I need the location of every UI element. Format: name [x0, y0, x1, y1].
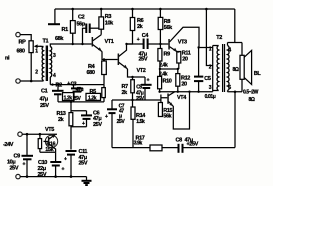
- wire bus upper (T1 bottom row): [50, 84, 104, 86]
- transistor VT4: [167, 94, 169, 104]
- capacitor C6: [71, 111, 87, 127]
- ground top-left: [54, 9, 56, 24]
- resistor R15: [158, 103, 162, 117]
- svg-text:R10: R10: [163, 78, 172, 84]
- transistor VT2: [118, 54, 120, 66]
- resistor R7: [131, 80, 135, 93]
- svg-text:68k: 68k: [55, 36, 64, 42]
- wire VT3 collector to T2 pin1: [199, 47, 213, 49]
- wire VT4 base from R15: [161, 95, 167, 103]
- svg-text:47μ: 47μ: [76, 87, 84, 93]
- wire VT4 emitter loop: [173, 92, 190, 129]
- wire output node vertical: [234, 92, 236, 148]
- svg-text:0.5~2W: 0.5~2W: [243, 90, 259, 96]
- resistor R10: [158, 76, 162, 88]
- svg-text:25V: 25V: [136, 96, 145, 102]
- svg-text:BL: BL: [254, 71, 262, 77]
- svg-text:C1: C1: [41, 89, 48, 95]
- ground bottom: [86, 177, 88, 181]
- wire VT2 emitter: [127, 69, 145, 77]
- resistor R17: [150, 145, 162, 151]
- wire mid divider: [160, 61, 179, 76]
- svg-text:1.2k: 1.2k: [88, 95, 97, 101]
- transistor VT1: [92, 37, 94, 47]
- wire input top: [20, 35, 31, 41]
- resistor R6: [130, 18, 134, 31]
- svg-text:C8: C8: [176, 137, 183, 143]
- svg-text:680: 680: [17, 48, 25, 54]
- svg-text:R14: R14: [136, 113, 146, 119]
- resistor R12: [176, 74, 180, 87]
- svg-text:R3: R3: [105, 14, 112, 20]
- svg-text:R2: R2: [56, 82, 63, 88]
- svg-text:VT3: VT3: [178, 40, 187, 46]
- wire speaker bottom to pin5: [228, 79, 243, 92]
- svg-text:47μ: 47μ: [40, 97, 48, 103]
- svg-text:2.4k: 2.4k: [159, 71, 168, 77]
- transistor VT3: [168, 39, 170, 50]
- svg-text:VT2: VT2: [137, 68, 146, 74]
- wire bottom rail: [16, 174, 20, 178]
- resistor R9: [158, 49, 162, 62]
- wire rail to T2 pin2: [206, 9, 212, 66]
- svg-text:25V: 25V: [40, 103, 49, 109]
- svg-text:R9: R9: [164, 52, 171, 58]
- resistor R16: [38, 139, 41, 149]
- wire -24V rail: [18, 132, 22, 136]
- resistor R5 body: [102, 88, 106, 98]
- svg-text:25V: 25V: [93, 122, 102, 128]
- wire RP bottom: [30, 53, 32, 81]
- svg-text:8Ω: 8Ω: [249, 97, 255, 103]
- svg-text:R1: R1: [62, 27, 69, 33]
- input terminal top: [16, 32, 20, 36]
- resistor R1: [70, 21, 75, 34]
- wire C5 bottom row: [112, 99, 161, 101]
- resistor R13: [69, 113, 73, 126]
- wire top rail: [55, 8, 235, 10]
- resistor R3: [99, 17, 104, 29]
- svg-text:VT1: VT1: [105, 39, 114, 45]
- capacitor C9: [26, 134, 28, 176]
- svg-text:-24V: -24V: [3, 142, 14, 148]
- svg-text:25V: 25V: [73, 96, 82, 102]
- svg-text:VT5: VT5: [45, 127, 54, 133]
- svg-text:+25V: +25V: [187, 142, 199, 148]
- svg-text:56p: 56p: [77, 21, 86, 27]
- svg-text:3.9k: 3.9k: [134, 141, 143, 147]
- svg-text:8Ω: 8Ω: [233, 67, 239, 73]
- wire push-pull lower (pin3 row): [160, 86, 213, 92]
- svg-text:1.2k: 1.2k: [64, 95, 73, 101]
- capacitor C5 0.01u: [198, 48, 200, 92]
- wire T1 sec bottom: [49, 77, 51, 85]
- svg-text:RP: RP: [19, 40, 27, 46]
- speaker BL: [240, 55, 244, 79]
- capacitor C10: [55, 152, 57, 176]
- wire feedback bottom row: [112, 147, 235, 149]
- wire rail right corner to speaker top: [228, 9, 243, 55]
- svg-text:680: 680: [87, 70, 95, 76]
- capacitor C11: [66, 150, 77, 152]
- svg-text:10k: 10k: [105, 20, 114, 26]
- svg-text:1.5k: 1.5k: [136, 119, 145, 125]
- node RP bottom: [30, 80, 33, 83]
- capacitor C8: [178, 144, 180, 153]
- wire input bottom: [20, 80, 43, 82]
- svg-text:25V: 25V: [117, 119, 126, 125]
- resistor R8: [158, 17, 163, 29]
- svg-text:20: 20: [182, 57, 188, 63]
- svg-text:25V: 25V: [139, 56, 148, 62]
- resistor R4: [102, 61, 107, 75]
- wire RP wiper: [37, 45, 41, 47]
- svg-text:25V: 25V: [79, 160, 88, 166]
- svg-text:VT4: VT4: [177, 95, 187, 101]
- svg-text:R6: R6: [137, 18, 144, 24]
- svg-text:C2: C2: [78, 15, 85, 21]
- potentiometer RP: [29, 41, 33, 53]
- svg-text:25V: 25V: [10, 166, 19, 172]
- resistor R14: [131, 107, 135, 119]
- svg-text:0.01μ: 0.01μ: [205, 94, 216, 100]
- svg-text:56k: 56k: [164, 25, 173, 31]
- svg-text:56k: 56k: [163, 114, 172, 120]
- input terminal bottom: [16, 79, 20, 83]
- svg-text:20: 20: [181, 81, 187, 87]
- node rail junctions: [71, 8, 74, 11]
- svg-text:T1: T1: [43, 39, 49, 45]
- wire T1 sec top to base node: [50, 44, 71, 47]
- resistor R11: [177, 52, 181, 64]
- wire base VT1: [72, 43, 92, 45]
- wire bus lower: [58, 101, 104, 103]
- wire VT1 emitter: [102, 51, 118, 59]
- wire VT5 emitter row: [40, 151, 56, 153]
- svg-text:T2: T2: [216, 35, 222, 41]
- svg-text:C5: C5: [204, 76, 211, 82]
